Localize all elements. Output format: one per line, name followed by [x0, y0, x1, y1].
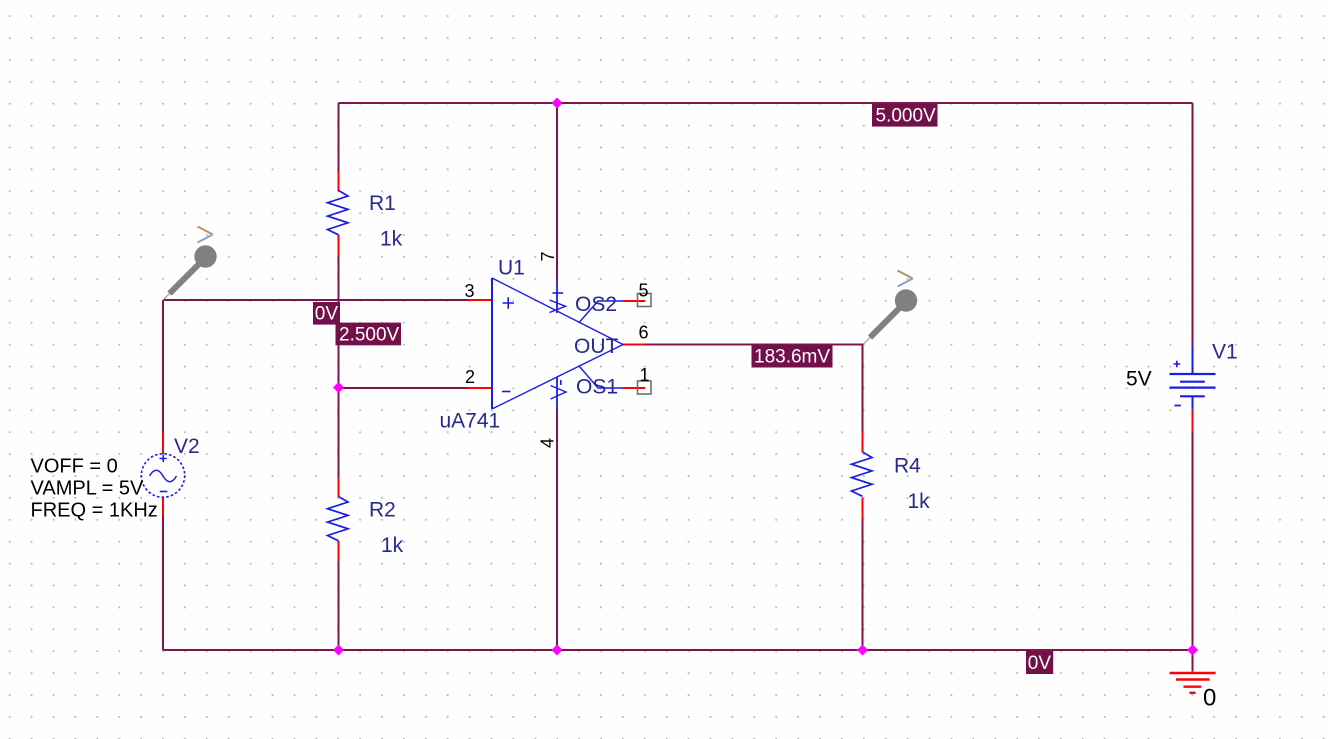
svg-text:VAMPL = 5V: VAMPL = 5V: [31, 478, 144, 500]
svg-text:1: 1: [640, 365, 650, 385]
svg-text:0V: 0V: [1028, 653, 1052, 674]
svg-text:U1: U1: [498, 257, 525, 280]
svg-text:OUT: OUT: [574, 335, 619, 358]
svg-text:5.000V: 5.000V: [876, 106, 937, 127]
svg-text:V2: V2: [174, 435, 200, 458]
svg-text:R1: R1: [369, 192, 396, 215]
svg-text:2: 2: [465, 367, 475, 387]
svg-text:0V: 0V: [315, 304, 339, 325]
svg-text:R2: R2: [369, 499, 396, 522]
svg-text:VOFF = 0: VOFF = 0: [31, 456, 118, 478]
svg-text:FREQ = 1KHz: FREQ = 1KHz: [31, 500, 158, 522]
svg-text:1k: 1k: [908, 490, 931, 513]
svg-text:2.500V: 2.500V: [339, 325, 400, 346]
svg-text:V1: V1: [1212, 341, 1238, 364]
svg-text:183.6mV: 183.6mV: [754, 347, 830, 368]
svg-text:1k: 1k: [381, 534, 404, 557]
svg-text:3: 3: [465, 281, 475, 301]
svg-text:OS2: OS2: [575, 293, 617, 316]
svg-text:R4: R4: [894, 455, 921, 478]
svg-text:7: 7: [538, 251, 558, 261]
svg-text:OS1: OS1: [576, 376, 618, 399]
svg-text:5: 5: [639, 281, 649, 301]
svg-text:5V: 5V: [1126, 368, 1152, 391]
svg-text:6: 6: [639, 323, 649, 343]
svg-text:0: 0: [1203, 685, 1216, 712]
svg-text:4: 4: [538, 438, 558, 448]
svg-text:1k: 1k: [380, 228, 403, 251]
svg-text:uA741: uA741: [440, 410, 501, 433]
